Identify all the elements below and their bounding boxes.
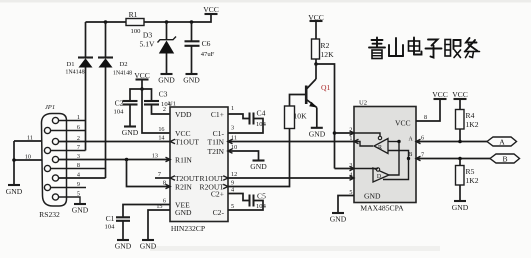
char shan bbox=[389, 38, 403, 56]
svg-text:R4: R4 bbox=[466, 111, 475, 120]
svg-text:GND: GND bbox=[122, 128, 139, 137]
wire DB9 pin7 lead to D1 bbox=[51, 150, 86, 152]
wire U1 VEE to C1 bbox=[123, 205, 170, 218]
svg-text:R1IN: R1IN bbox=[175, 156, 192, 165]
capacitor C4 104 bbox=[250, 109, 267, 129]
char wu bbox=[465, 38, 480, 58]
svg-text:C2+: C2+ bbox=[211, 190, 224, 199]
op-amp U1 HIN232CP body bbox=[168, 101, 228, 234]
U1 left pin numbers bbox=[152, 106, 166, 210]
svg-text:R5: R5 bbox=[466, 167, 475, 176]
wire U1 T1IN to U2 RO bbox=[228, 141, 354, 143]
svg-text:4: 4 bbox=[231, 187, 234, 194]
DB9 connector JP1 bbox=[39, 104, 66, 219]
svg-text:GND: GND bbox=[250, 162, 267, 171]
wire to C3 bbox=[142, 89, 152, 101]
svg-text:13: 13 bbox=[152, 153, 158, 160]
svg-text:C3: C3 bbox=[159, 90, 168, 99]
svg-text:C2: C2 bbox=[115, 99, 124, 108]
svg-text:6: 6 bbox=[77, 124, 80, 131]
DB9 pin circles bbox=[44, 117, 58, 200]
svg-text:1: 1 bbox=[77, 114, 80, 121]
wire to U2 pin3 bbox=[335, 168, 355, 170]
capacitor C6 47uF bbox=[185, 22, 215, 74]
wire Q1 base to R3 bbox=[290, 95, 306, 107]
svg-text:R2IN: R2IN bbox=[175, 183, 192, 192]
node D2-rail junction bbox=[104, 20, 108, 24]
svg-text:1: 1 bbox=[231, 105, 234, 112]
node R4-A junction bbox=[458, 140, 462, 144]
ground for C1 bbox=[115, 240, 132, 251]
wire U1 R1OUT to U2 DI bbox=[228, 177, 354, 179]
svg-text:JP1: JP1 bbox=[45, 104, 55, 111]
ground for Q1 emitter bbox=[309, 128, 326, 139]
node C6-rail junction bbox=[190, 20, 194, 24]
svg-text:A: A bbox=[499, 137, 505, 146]
svg-text:C6: C6 bbox=[202, 39, 211, 48]
U1 right pin labels bbox=[200, 110, 225, 217]
vcc symbol above C2 C3 bbox=[134, 71, 150, 89]
node R1IN branch bbox=[125, 158, 129, 162]
svg-text:GND: GND bbox=[175, 208, 192, 217]
svg-text:16: 16 bbox=[158, 126, 164, 133]
svg-text:47uF: 47uF bbox=[201, 51, 215, 58]
wire C5 to U1 pin5 bbox=[228, 201, 263, 211]
svg-text:10: 10 bbox=[25, 154, 31, 161]
wire DB9 pin8 lead to D2 bbox=[51, 168, 106, 170]
svg-text:GND: GND bbox=[452, 203, 469, 212]
svg-text:12: 12 bbox=[231, 171, 237, 178]
svg-text:C4: C4 bbox=[257, 109, 266, 118]
wire shell pin 11 bbox=[14, 140, 42, 142]
svg-text:D2: D2 bbox=[119, 61, 127, 68]
svg-text:VCC: VCC bbox=[203, 5, 219, 14]
svg-text:8: 8 bbox=[424, 114, 427, 121]
svg-text:5: 5 bbox=[231, 203, 234, 210]
wire shell pin 10 bbox=[14, 159, 42, 161]
wire DB9 pin4 lead to D2 bbox=[59, 177, 106, 179]
wire C4 to U1 pin3 bbox=[228, 119, 263, 134]
svg-text:D: D bbox=[377, 174, 382, 180]
svg-text:104: 104 bbox=[256, 203, 267, 210]
ground for DB9 shell bbox=[6, 185, 23, 196]
wire B line bbox=[416, 158, 490, 160]
resistor R3 10K bbox=[285, 106, 308, 129]
svg-text:14: 14 bbox=[158, 135, 164, 142]
svg-text:T2IN: T2IN bbox=[208, 147, 225, 156]
capacitor C1 104 bbox=[105, 214, 130, 240]
wire RE to receiver bubble bbox=[354, 133, 380, 136]
svg-text:3: 3 bbox=[231, 125, 234, 132]
wire RO to receiver bbox=[354, 142, 373, 147]
svg-text:GND: GND bbox=[140, 242, 157, 251]
svg-text:1K2: 1K2 bbox=[466, 120, 479, 129]
capacitor C3 104 bbox=[144, 90, 172, 115]
node VCC junction bbox=[140, 87, 144, 91]
U1 pin direction arrows bbox=[166, 139, 233, 189]
transistor Q1 bbox=[306, 64, 330, 128]
wire to U2 pin2 bbox=[335, 132, 355, 134]
wire R2 to collector node bbox=[315, 59, 317, 64]
char fu bbox=[445, 40, 461, 58]
ground for D3 bbox=[158, 74, 175, 85]
U2 pin arrows bbox=[350, 131, 421, 181]
svg-text:C1+: C1+ bbox=[211, 110, 224, 119]
wire collector node to U2 enable bbox=[316, 64, 335, 169]
vcc symbol top-right bbox=[203, 5, 219, 14]
node shell gnd junction bbox=[12, 158, 16, 162]
vcc symbol for U2 bbox=[432, 90, 448, 99]
wire DB9 pin5 to ground bbox=[59, 197, 80, 204]
wire U2 pin5 to ground bbox=[338, 196, 354, 213]
DB9 pin leads and numbers bbox=[51, 114, 86, 198]
svg-text:RS232: RS232 bbox=[39, 210, 60, 219]
Chinese title 青山电子服务 bbox=[369, 38, 480, 59]
svg-text:6: 6 bbox=[163, 198, 166, 205]
capacitor C5 104 bbox=[250, 192, 267, 211]
svg-text:U1: U1 bbox=[168, 101, 176, 108]
node R5-B junction bbox=[458, 157, 462, 161]
svg-text:GND: GND bbox=[72, 206, 89, 215]
ground for R5 bbox=[452, 201, 469, 212]
resistor R1 bbox=[126, 10, 144, 35]
wire U1 pin4 to C5 bbox=[228, 194, 249, 201]
wire driver out to B bbox=[383, 159, 409, 180]
svg-text:7: 7 bbox=[421, 152, 424, 159]
resistor R4 1K2 bbox=[456, 110, 479, 142]
zener diode D3 5.1V bbox=[140, 22, 176, 74]
wire R1IN to R2IN bbox=[127, 160, 171, 187]
svg-text:R2: R2 bbox=[321, 41, 330, 50]
svg-text:7: 7 bbox=[158, 171, 161, 178]
svg-text:11: 11 bbox=[27, 135, 33, 142]
svg-text:9: 9 bbox=[231, 180, 234, 187]
capacitor C2 104 bbox=[114, 99, 138, 127]
resistor R2 12K bbox=[312, 39, 335, 59]
U1 left pin labels bbox=[175, 110, 199, 217]
svg-text:B: B bbox=[409, 152, 413, 158]
wire U1 pin10 to ground bbox=[228, 151, 259, 160]
ground for C2 bbox=[122, 127, 139, 138]
ground for C6 bbox=[183, 74, 200, 85]
wire U1 pin1 to C4 bbox=[228, 114, 249, 119]
op-amp U2 MAX485CPA body bbox=[354, 100, 416, 213]
svg-text:5.1V: 5.1V bbox=[140, 40, 155, 49]
svg-text:T1IN: T1IN bbox=[208, 138, 225, 147]
driver triangle D bbox=[373, 168, 389, 182]
char zi bbox=[426, 40, 442, 58]
char dian bbox=[409, 38, 422, 55]
wire DB9 pin2 to U1 T1OUT bbox=[59, 141, 170, 143]
svg-text:GND: GND bbox=[309, 129, 326, 138]
wire to C2 bbox=[130, 89, 142, 101]
svg-text:1K2: 1K2 bbox=[466, 176, 479, 185]
char qing bbox=[369, 38, 385, 59]
svg-text:GND: GND bbox=[330, 215, 347, 224]
svg-text:GND: GND bbox=[183, 76, 200, 85]
wire T2OUT stub bbox=[155, 177, 170, 179]
node B internal bbox=[407, 157, 410, 160]
U1 right pin numbers bbox=[231, 105, 237, 210]
wire receiver input A bbox=[388, 141, 399, 143]
svg-text:B: B bbox=[502, 154, 507, 163]
svg-text:C1: C1 bbox=[106, 214, 115, 223]
svg-text:9: 9 bbox=[77, 181, 80, 188]
svg-text:VDD: VDD bbox=[175, 110, 192, 119]
ground for DB9 pin5 bbox=[72, 204, 89, 215]
svg-text:VCC: VCC bbox=[452, 90, 468, 99]
svg-text:GND: GND bbox=[115, 242, 132, 251]
node RE branch bbox=[333, 131, 337, 135]
svg-text:1N4148: 1N4148 bbox=[113, 71, 132, 77]
svg-text:C5: C5 bbox=[257, 192, 266, 201]
svg-text:6: 6 bbox=[421, 135, 424, 142]
ground for U1 pin15 bbox=[140, 240, 157, 251]
node A internal bbox=[397, 140, 400, 143]
svg-text:HIN232CP: HIN232CP bbox=[171, 224, 205, 233]
diode D1 1N4148 bbox=[65, 22, 93, 151]
wire DB9 pin3 to U1 R1IN bbox=[59, 159, 170, 161]
svg-text:104: 104 bbox=[105, 224, 116, 231]
ground for U2 bbox=[330, 213, 347, 224]
svg-text:GND: GND bbox=[6, 187, 23, 196]
svg-text:C2-: C2- bbox=[213, 208, 225, 217]
wire top power rail bbox=[86, 14, 212, 22]
svg-text:R: R bbox=[378, 145, 382, 151]
wire driver out to A bbox=[389, 142, 399, 176]
svg-text:U2: U2 bbox=[359, 100, 367, 107]
svg-text:10: 10 bbox=[231, 144, 237, 151]
wire VCC junction to U1 pin16 bbox=[142, 89, 170, 133]
resistor R5 1K2 bbox=[456, 159, 479, 201]
svg-text:100: 100 bbox=[131, 28, 142, 35]
wire U2 pin8 to VCC bbox=[416, 99, 440, 121]
wire receiver input B bbox=[388, 151, 409, 159]
svg-text:GND: GND bbox=[364, 192, 381, 201]
svg-text:104: 104 bbox=[114, 109, 125, 116]
ground for T2IN bbox=[250, 161, 267, 172]
svg-text:2: 2 bbox=[163, 106, 166, 113]
wire U1 pin15 to ground bbox=[148, 210, 170, 240]
svg-text:1: 1 bbox=[349, 135, 352, 142]
svg-text:104: 104 bbox=[256, 121, 267, 128]
svg-text:D1: D1 bbox=[66, 61, 74, 68]
svg-text:12K: 12K bbox=[321, 50, 335, 59]
node A terminal bbox=[487, 137, 517, 146]
svg-text:D3: D3 bbox=[143, 31, 152, 40]
svg-text:11: 11 bbox=[231, 135, 237, 142]
node D3-rail junction bbox=[165, 20, 169, 24]
svg-text:Q1: Q1 bbox=[321, 83, 330, 92]
receiver triangle R bbox=[374, 136, 388, 153]
wire A line bbox=[416, 141, 487, 143]
wire U1 R2OUT to R3 bbox=[228, 129, 290, 187]
U2 pin numbers bbox=[349, 127, 352, 197]
svg-text:8: 8 bbox=[163, 180, 166, 187]
vcc symbol for R4 bbox=[452, 90, 468, 110]
svg-text:10K: 10K bbox=[294, 112, 308, 121]
vcc symbol above R2 bbox=[308, 13, 324, 39]
node B terminal bbox=[490, 154, 520, 163]
wire DE to driver bubble bbox=[354, 168, 378, 170]
wire shell to ground bbox=[13, 141, 15, 185]
diode D2 1N4148 bbox=[98, 22, 132, 178]
svg-text:VCC: VCC bbox=[432, 90, 448, 99]
svg-text:MAX485CPA: MAX485CPA bbox=[360, 204, 404, 213]
svg-text:GND: GND bbox=[158, 76, 175, 85]
svg-text:T1OUT: T1OUT bbox=[175, 138, 199, 147]
node collector junction bbox=[314, 62, 318, 66]
svg-text:VCC: VCC bbox=[395, 119, 411, 128]
svg-text:1N4148: 1N4148 bbox=[65, 70, 84, 76]
svg-text:R1: R1 bbox=[129, 10, 138, 19]
